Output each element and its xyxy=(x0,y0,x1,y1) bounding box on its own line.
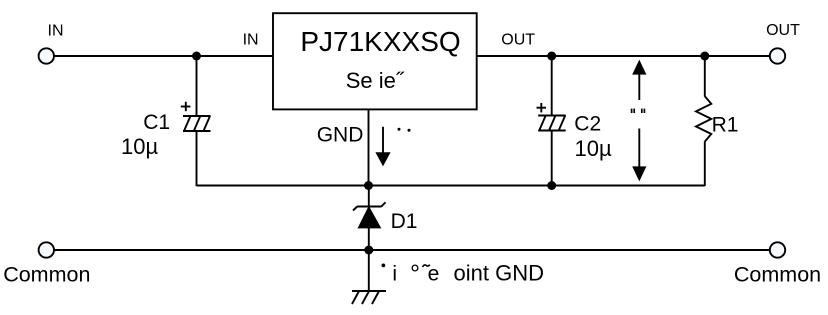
svg-text:IN: IN xyxy=(243,32,259,49)
wire C2 upper lead xyxy=(551,56,553,116)
wire R1 lower lead xyxy=(704,142,706,187)
C2 plus polarity mark xyxy=(537,103,547,112)
node: common rail at D1 xyxy=(364,246,373,255)
svg-text:GND: GND xyxy=(317,123,364,146)
svg-text:10µ: 10µ xyxy=(121,134,158,159)
svg-text:OUT: OUT xyxy=(766,22,800,39)
node: ground rail at C2 xyxy=(547,181,556,190)
degraded text: single point GND xyxy=(382,264,386,268)
capacitor C2 (polarized) xyxy=(538,116,566,131)
regulator U1 box xyxy=(273,13,477,109)
node: ground rail at GND pin xyxy=(364,181,373,190)
wire C1 lower lead xyxy=(196,131,198,186)
svg-text:PJ71KXXSQ: PJ71KXXSQ xyxy=(300,26,460,57)
terminal Common (left) xyxy=(39,242,54,257)
ground current arrow xyxy=(382,127,384,153)
wire R1 upper lead xyxy=(704,56,706,97)
svg-text:D1: D1 xyxy=(391,210,418,233)
svg-text:e: e xyxy=(428,262,440,285)
tiny dot artifacts right of arrow xyxy=(398,128,401,131)
svg-text:IN: IN xyxy=(48,23,64,40)
zener diode D1 xyxy=(353,202,386,210)
output voltage double arrow (down) xyxy=(638,129,640,168)
wire input rail xyxy=(54,55,273,57)
svg-text:C2: C2 xyxy=(574,113,601,136)
node: output junction at R1 xyxy=(700,52,709,61)
svg-text:Common: Common xyxy=(3,263,90,287)
wire D1 lower lead xyxy=(368,228,370,250)
ground symbol xyxy=(352,291,386,304)
resistor R1 xyxy=(696,96,711,141)
svg-text:C1: C1 xyxy=(143,111,170,134)
capacitor C1 (polarized) xyxy=(183,116,211,131)
svg-text:Common: Common xyxy=(734,263,821,287)
wire GND pin xyxy=(368,109,370,186)
wire C2 lower lead xyxy=(551,131,553,187)
node: output junction at C2 xyxy=(547,52,556,61)
svg-text:10µ: 10µ xyxy=(575,136,612,161)
svg-text:Se ie˝: Se ie˝ xyxy=(346,68,405,93)
wire ground stub xyxy=(368,250,370,291)
terminal Common (right) xyxy=(770,242,785,257)
wire C1 upper lead xyxy=(196,56,198,116)
C1 plus polarity mark xyxy=(181,102,191,111)
wire ground rail (middle) xyxy=(197,185,705,187)
terminal IN xyxy=(39,48,54,63)
svg-text:°: ° xyxy=(410,260,420,288)
svg-text:oint GND: oint GND xyxy=(454,260,544,285)
svg-text:OUT: OUT xyxy=(501,32,535,49)
svg-text:R1: R1 xyxy=(712,114,739,137)
degraded label quotes xyxy=(632,109,645,113)
terminal OUT xyxy=(770,48,785,63)
wire D1 upper lead xyxy=(368,186,370,208)
wire output rail xyxy=(477,55,770,57)
node: input junction at C1 xyxy=(192,52,201,61)
svg-text:i: i xyxy=(392,262,397,285)
wire common rail xyxy=(54,249,770,251)
output voltage double arrow (up) xyxy=(638,73,640,100)
